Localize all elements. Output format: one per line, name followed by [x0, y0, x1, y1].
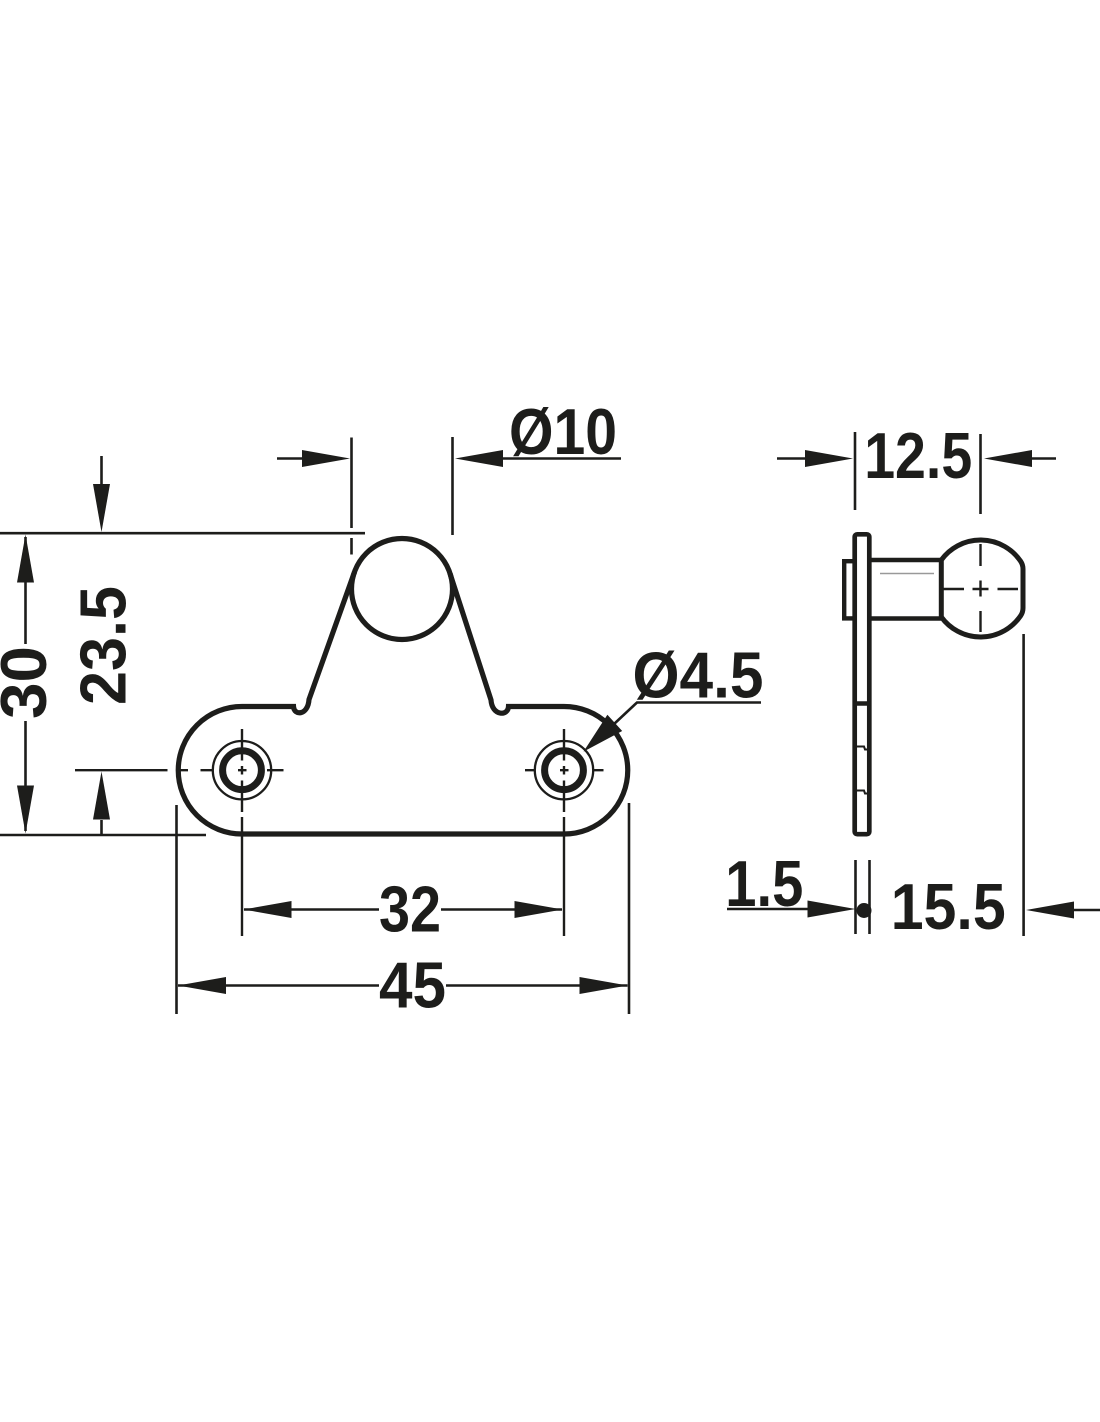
- side view bend line: [853, 701, 872, 705]
- side view hole edge lines: [857, 747, 869, 794]
- svg-text:30: 30: [0, 646, 60, 719]
- front view right screw hole D4.5: [535, 741, 593, 799]
- dimension 45: [177, 803, 630, 1014]
- svg-text:1.5: 1.5: [725, 847, 803, 920]
- svg-text:Ø4.5: Ø4.5: [633, 639, 764, 712]
- side view washer tab: [844, 561, 855, 618]
- svg-text:15.5: 15.5: [891, 870, 1006, 943]
- dimension 12.5: [777, 432, 1056, 514]
- dimension 1.5: [727, 860, 870, 934]
- svg-text:23.5: 23.5: [67, 586, 140, 705]
- dimension 15.5: [1024, 634, 1100, 936]
- front view lug hole circle D10: [352, 539, 453, 640]
- dimension 32: [244, 908, 562, 911]
- dimension 30: [24, 537, 27, 831]
- dimension D10: [277, 437, 621, 555]
- svg-text:45: 45: [379, 949, 446, 1022]
- datum extension line bottom: [0, 834, 206, 837]
- side view ball: [941, 540, 1023, 637]
- side view stud fillet thin line: [880, 573, 934, 575]
- svg-text:12.5: 12.5: [864, 419, 972, 492]
- dimension 23.5: [100, 456, 103, 834]
- datum extension line top: [0, 532, 365, 535]
- front view left hole centerlines: [75, 729, 284, 936]
- front view left screw hole D4.5: [213, 741, 271, 799]
- front view bracket outline: [178, 572, 628, 834]
- side view ball centerlines: [942, 544, 1019, 632]
- svg-text:Ø10: Ø10: [509, 395, 617, 468]
- front view right hole centerlines: [525, 729, 604, 936]
- svg-text:32: 32: [379, 873, 441, 946]
- side view stud cylinder: [869, 560, 941, 619]
- leader D4.5: [590, 703, 761, 747]
- side view plate: [855, 534, 870, 834]
